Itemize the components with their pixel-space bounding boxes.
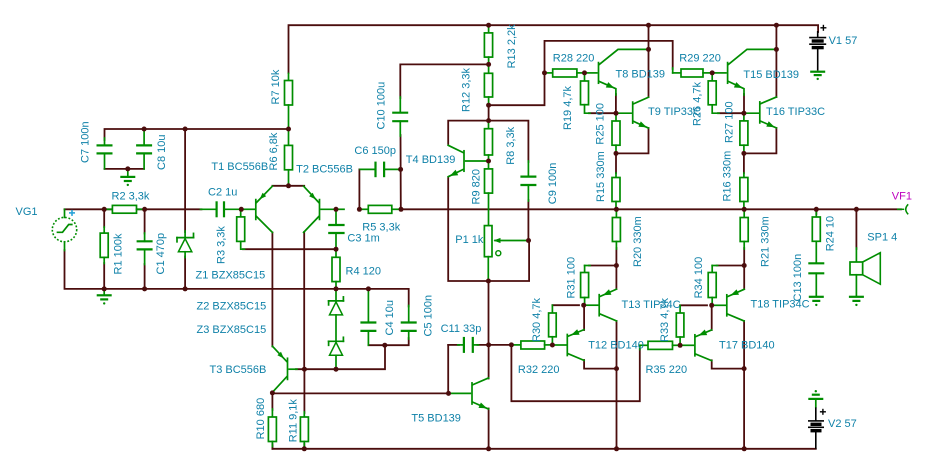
capacitor C11 [458, 337, 479, 353]
svg-text:T17 BD140: T17 BD140 [719, 339, 775, 351]
wire: negative bottom rail [272, 446, 815, 449]
wire: R20 bottom lead [615, 248, 617, 266]
wire: T3 base node to C4/C5 bottom node [296, 345, 385, 369]
svg-text:R9 820: R9 820 [470, 169, 482, 204]
wire: R11 lead to bottom rail [303, 444, 305, 449]
svg-text:T2 BC556B: T2 BC556B [296, 163, 353, 175]
wire: VAS upper node R12 to R29 feed [489, 41, 673, 105]
resistor R19 [581, 73, 591, 113]
wire: C11 node segments [448, 344, 459, 346]
svg-text:R16 330m: R16 330m [722, 151, 734, 202]
svg-text:VF1: VF1 [892, 190, 912, 202]
transistor T9 TIP33C [616, 97, 649, 128]
capacitor C1 [137, 233, 153, 265]
wire: R11 top lead from T3 base node [303, 369, 305, 413]
wire: C1 upper lead [144, 209, 146, 233]
svg-text:R20 330m: R20 330m [632, 216, 644, 267]
svg-text:R28 220: R28 220 [553, 53, 595, 65]
resistor R27 [740, 113, 748, 153]
ground below V1 [810, 72, 825, 80]
capacitor C5 [401, 306, 417, 340]
resistor R32 [511, 341, 552, 349]
speaker SP1 [850, 248, 880, 296]
svg-text:T13 TIP34C: T13 TIP34C [622, 299, 681, 311]
svg-text:T18 TIP34C: T18 TIP34C [751, 299, 810, 311]
svg-text:T1 BC556B: T1 BC556B [211, 161, 268, 173]
svg-text:R1 100k: R1 100k [113, 233, 125, 274]
wire: T8/T9 collectors vertical at x=648.5 [648, 25, 650, 97]
wire: T17 collector link [712, 360, 744, 368]
svg-text:R13 2,2k: R13 2,2k [506, 24, 518, 69]
wire: VG1 bottom to ground rail, ground rail to C5 corner [65, 250, 409, 307]
zener Z3 [329, 337, 344, 369]
capacitor C7 [97, 138, 113, 169]
potentiometer P1 [484, 226, 528, 281]
resistor R5 [336, 205, 401, 213]
svg-text:R12 3,3k: R12 3,3k [461, 67, 473, 112]
transistor T16 TIP33C [744, 97, 777, 128]
wire: zener-filtered node rail y=129 [105, 129, 289, 140]
transistor T4 BD139 [448, 145, 488, 176]
svg-text:V1 57: V1 57 [829, 35, 858, 47]
svg-text:C13 100n: C13 100n [792, 254, 804, 302]
battery V1 [809, 25, 826, 71]
svg-text:R4 120: R4 120 [346, 265, 381, 277]
capacitor C9 [520, 161, 536, 201]
ground below SP1 [849, 297, 864, 306]
svg-text:C10 100u: C10 100u [376, 82, 388, 130]
wire: R16 top lead [743, 153, 745, 173]
wire: R24 top lead [815, 209, 817, 214]
svg-text:R29 220: R29 220 [679, 53, 721, 65]
resistor R6 [285, 129, 293, 186]
svg-text:C1 470p: C1 470p [155, 233, 167, 275]
svg-text:T3 BC556B: T3 BC556B [210, 364, 267, 376]
capacitor C8 [136, 129, 152, 169]
wire: T18 collector down to bottom rail [743, 321, 745, 449]
resistor R10 [268, 393, 276, 446]
svg-text:C8 10u: C8 10u [156, 135, 168, 170]
source VG1 [52, 209, 76, 250]
wire: T12 collector link [584, 360, 616, 369]
resistor R33 [676, 305, 684, 345]
svg-text:R27 100: R27 100 [723, 101, 735, 143]
resistor R31 [581, 266, 617, 306]
resistor R9 [485, 161, 493, 226]
wire: T18 emitter vertical [743, 266, 745, 290]
svg-text:T16 TIP33C: T16 TIP33C [766, 106, 825, 118]
wire: T9 emitter to R25 bottom node [616, 128, 649, 153]
wire: input rail from VG1 to C2 [65, 208, 202, 210]
wire: lower VAS node down from P1 bottom [488, 281, 490, 345]
capacitor C10 [392, 97, 408, 136]
svg-text:R2 3,3k: R2 3,3k [112, 191, 150, 203]
wire: T1/T2 emitter tie bar [272, 185, 304, 187]
wire: C1 lower lead [144, 264, 146, 289]
svg-text:R35 220: R35 220 [646, 364, 688, 376]
resistor R12 [484, 64, 492, 105]
transistor T5 BD139 [449, 378, 489, 409]
wire: T13 collector down to bottom rail [616, 321, 618, 449]
wire: +57V top rail from R7 to V1 [289, 25, 819, 73]
wire: T2 collector down to T3 base node [303, 232, 305, 369]
wire: T3 collector to T5 base [272, 392, 448, 394]
resistor R26 [708, 73, 719, 113]
svg-text:R30 4,7k: R30 4,7k [531, 297, 543, 342]
capacitor C4 [360, 289, 376, 345]
resistor R30 [549, 305, 557, 345]
wire: R8 node to C9 top [489, 121, 529, 162]
svg-text:C4 10u: C4 10u [384, 300, 396, 335]
ground input rail [97, 289, 112, 305]
resistor R13 [484, 25, 492, 64]
resistor R16 [740, 173, 748, 209]
resistor R28 [545, 69, 585, 77]
wire: lower drive to R35 loop [511, 345, 639, 401]
transistor T13 TIP34C [584, 289, 617, 321]
wire: Z1 stem lower [184, 257, 186, 289]
wire: R15 top lead [615, 153, 617, 173]
svg-text:R21 330m: R21 330m [759, 216, 771, 267]
svg-text:T4 BD139: T4 BD139 [406, 154, 456, 166]
wire: SP1 top lead [855, 209, 857, 249]
wire: T4 emitter down to P1 bottom rail [448, 178, 529, 281]
wire: output rail [401, 208, 901, 210]
wire: C11 left leg down to T5 base [447, 345, 449, 394]
transistor T18 TIP34C [712, 289, 745, 321]
capacitor C13 [808, 263, 824, 296]
svg-text:C2 1u: C2 1u [208, 187, 237, 199]
wire: T17 emitter vertical [711, 305, 713, 330]
svg-text:R7 10k: R7 10k [270, 69, 282, 104]
resistor R21 [740, 209, 748, 249]
svg-text:VG1: VG1 [16, 206, 38, 218]
wire: T1 collector down to T3 emitter [271, 233, 273, 347]
wire: T13 base wire to R30 top [552, 304, 579, 306]
svg-text:C7 100n: C7 100n [80, 121, 92, 163]
terminal VF1 [897, 204, 908, 214]
svg-text:C6 150p: C6 150p [354, 145, 396, 157]
svg-text:T5 BD139: T5 BD139 [411, 413, 461, 425]
zener Z2 [329, 289, 344, 341]
svg-text:Z3 BZX85C15: Z3 BZX85C15 [197, 324, 267, 336]
resistor R4 [332, 249, 340, 289]
transistor T12 BD140 [552, 329, 584, 360]
svg-text:V2 57: V2 57 [828, 418, 857, 430]
resistor R11 [300, 412, 308, 447]
resistor R2 [104, 205, 144, 213]
capacitor C6 [360, 162, 400, 178]
wire: R26 bottom to T16 base [718, 112, 744, 114]
svg-text:R10 680: R10 680 [255, 398, 267, 440]
resistor R20 [612, 209, 620, 249]
svg-text:T12 BD140: T12 BD140 [588, 339, 644, 351]
wire: T4 collector link [448, 121, 488, 144]
svg-text:R3 3,3k: R3 3,3k [215, 226, 227, 264]
svg-text:T15 BD139: T15 BD139 [743, 69, 799, 81]
wire: T5 collector vertical [488, 345, 490, 379]
wire: C10 top link to R13/R12 node [400, 64, 488, 98]
wire: T15 emitter vertical to T16 base [743, 94, 745, 113]
wire: R1 lower lead [103, 263, 105, 289]
wire: R3 bottom to C3/R4 node [243, 248, 336, 250]
ground below C13 [809, 297, 824, 306]
svg-text:R34 100: R34 100 [693, 257, 705, 299]
svg-text:R32 220: R32 220 [518, 364, 560, 376]
wire: T15/T16 collectors vertical at x=776.4 [775, 25, 777, 97]
resistor R1 [100, 227, 108, 264]
wire: R10 lead to bottom rail [271, 444, 273, 449]
capacitor C2 [201, 201, 242, 217]
svg-text:C5 100n: C5 100n [423, 295, 435, 337]
svg-text:C3 1m: C3 1m [347, 232, 379, 244]
svg-text:T8 BD139: T8 BD139 [616, 69, 666, 81]
resistor R24 [812, 212, 820, 263]
svg-text:R11 9,1k: R11 9,1k [288, 399, 300, 443]
svg-text:R6 6,8k: R6 6,8k [268, 132, 280, 170]
ground below C7/C8 [120, 169, 135, 186]
resistor R35 [640, 341, 680, 349]
transistor T8 BD139 [585, 49, 649, 95]
transistor T2 BC556B [304, 186, 336, 232]
capacitor C3 [328, 209, 344, 249]
wire: T16 emitter to R27 bottom node [744, 128, 777, 153]
svg-text:R26 4,7k: R26 4,7k [691, 81, 703, 126]
wire: C10 bottom to C6 node to R5 node [400, 135, 402, 209]
transistor T15 BD139 [712, 49, 776, 95]
wire: C7/C8 bottom link to ground [105, 168, 145, 170]
svg-text:R31 100: R31 100 [566, 257, 578, 299]
svg-text:C11 33p: C11 33p [441, 323, 482, 335]
wire: R12 bottom to R8 top node [488, 105, 490, 120]
zener Z1 [177, 231, 194, 258]
svg-text:R24 10: R24 10 [824, 216, 836, 251]
wire: R19 bottom to T9 base [589, 112, 616, 114]
svg-text:SP1 4: SP1 4 [867, 232, 897, 244]
resistor R8 [485, 121, 493, 161]
wire: Z1 stem upper [184, 129, 186, 232]
svg-text:R25 100: R25 100 [595, 103, 607, 145]
svg-text:Z1 BZX85C15: Z1 BZX85C15 [196, 270, 266, 282]
resistor R7 [285, 74, 293, 130]
resistor R29 [673, 68, 713, 77]
wire: T12 emitter vertical [583, 305, 585, 330]
wire: T18 base wire to R33 top [680, 304, 707, 306]
resistor R34 [708, 266, 744, 306]
resistor R3 [237, 209, 245, 249]
wire: C9 bottom to P1 wiper node [527, 200, 529, 241]
wire: T5 emitter vertical to bottom rail [488, 409, 490, 449]
wire: R1 upper lead [103, 209, 105, 227]
transistor T1 BC556B [241, 186, 272, 232]
wire: T13 emitter vertical [615, 266, 617, 290]
transistor T17 BD140 [680, 330, 712, 361]
svg-text:Z2 BZX85C15: Z2 BZX85C15 [197, 301, 267, 313]
svg-text:R19 4,7k: R19 4,7k [562, 85, 574, 130]
resistor R25 [612, 113, 620, 153]
wire: T8 emitter vertical to T9 base [615, 94, 617, 113]
svg-text:C9 100n: C9 100n [547, 163, 559, 205]
ground above V2 (inverted) [808, 390, 823, 407]
svg-text:R15 330m: R15 330m [595, 151, 607, 202]
resistor R15 [612, 173, 620, 209]
svg-text:R8 3,3k: R8 3,3k [505, 126, 517, 164]
transistor T3 BC556B [272, 346, 297, 392]
battery V2 [808, 407, 826, 448]
wire: C6 left leg down to R5 left node [358, 169, 360, 209]
wire: R21 bottom lead [743, 248, 745, 266]
svg-text:P1 1k: P1 1k [455, 234, 484, 246]
wire: C4/C5 bottom link [368, 338, 408, 345]
